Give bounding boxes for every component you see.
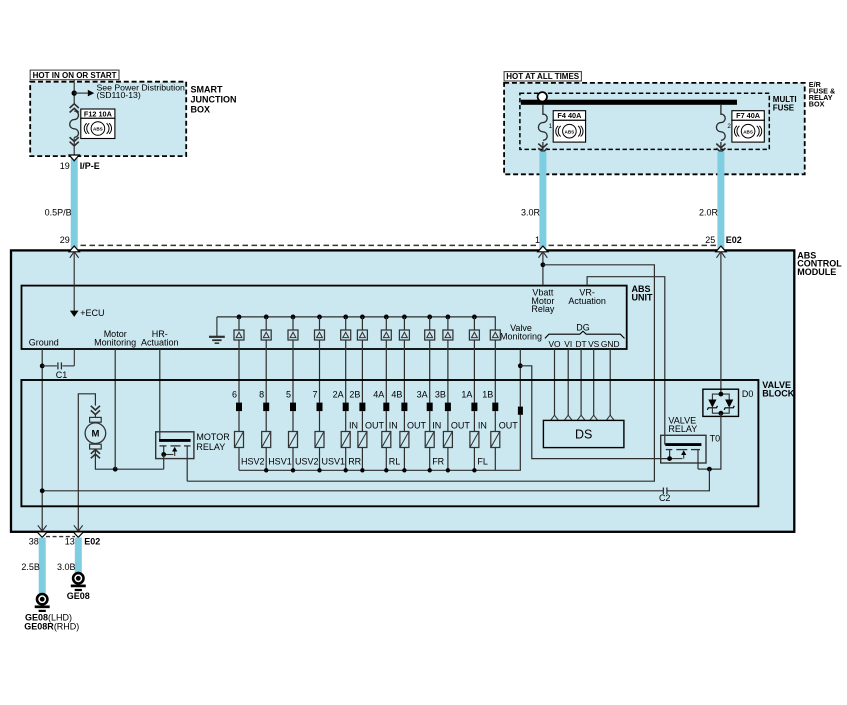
wire from hot-in-on to junction <box>73 80 75 104</box>
wire bus to driver 1 <box>238 317 240 330</box>
svg-text:4A: 4A <box>373 389 384 399</box>
svg-text:USV1: USV1 <box>322 456 346 466</box>
valve driver 3B <box>443 330 453 340</box>
wire solenoid 6 to return bus <box>361 448 363 471</box>
valve driver 7 <box>315 330 325 340</box>
svg-text:E02: E02 <box>726 235 742 245</box>
solenoid coil 1 <box>235 432 244 448</box>
svg-text:USV2: USV2 <box>295 456 319 466</box>
svg-text:F12 10A: F12 10A <box>84 109 113 118</box>
wire pin to solenoid coil 1 <box>238 411 240 431</box>
svg-text:8: 8 <box>259 389 264 399</box>
wire solenoid 12 to return bus <box>494 448 496 471</box>
connector E02 dashed line at module top <box>81 244 717 246</box>
solenoid coil 5 <box>341 432 350 448</box>
svg-text:OUT: OUT <box>407 421 427 431</box>
svg-text:Monitoring: Monitoring <box>500 331 542 341</box>
junction on solenoid return bus <box>264 468 268 472</box>
svg-text:IN: IN <box>432 421 441 431</box>
junction valve relay output <box>707 467 712 472</box>
fuse F7 40A label box <box>732 111 764 121</box>
svg-text:2: 2 <box>727 123 731 130</box>
wire below fuse F12 <box>73 138 75 156</box>
svg-text:JUNCTION: JUNCTION <box>191 95 237 105</box>
motor M1 <box>85 417 106 449</box>
svg-text:FR: FR <box>432 456 444 466</box>
ABS control module box <box>11 250 794 531</box>
svg-text:Monitoring: Monitoring <box>94 338 136 348</box>
junction on driver bus 4 <box>317 315 322 320</box>
svg-text:Ground: Ground <box>29 338 59 348</box>
junction on solenoid return bus <box>446 468 450 472</box>
wire driver 7 to solenoid <box>319 340 321 403</box>
svg-text:T0: T0 <box>710 433 721 443</box>
svg-text:VO: VO <box>548 339 561 349</box>
E/R fuse and relay box <box>504 83 805 174</box>
wire D0 to valve relay junction <box>709 413 721 469</box>
DS input triangle VI <box>564 415 572 420</box>
junction on driver bus 5 <box>343 315 348 320</box>
wire solenoid 10 to return bus <box>447 448 449 471</box>
wire valve relay to C2 <box>667 469 710 491</box>
wire pin to solenoid coil 12 <box>494 411 496 431</box>
wire Vbatt to motor relay contact <box>187 265 654 481</box>
svg-text:BOX: BOX <box>191 105 211 115</box>
label ABS CONTROL MODULE <box>797 250 842 277</box>
svg-text:Relay: Relay <box>531 304 555 314</box>
svg-text:(SD110-13): (SD110-13) <box>97 90 141 100</box>
wire bar to fuse F7 <box>720 105 722 115</box>
svg-text:HOT AT ALL TIMES: HOT AT ALL TIMES <box>506 72 580 81</box>
driver supply bus wire <box>217 317 495 330</box>
wire solenoid 11 to return bus <box>473 448 475 471</box>
svg-text:RL: RL <box>389 456 401 466</box>
svg-text:13: 13 <box>65 537 75 547</box>
connector chevrons below fuse F4 <box>538 144 547 153</box>
svg-text:ABS: ABS <box>743 129 753 134</box>
valve driver 2B <box>357 330 367 340</box>
ground GE08 right <box>71 573 86 590</box>
wire solenoid 5 to return bus <box>345 448 347 471</box>
solenoid coil 3 <box>289 432 298 448</box>
ABS unit internal ground <box>209 317 225 343</box>
connector pin 2A <box>343 403 349 412</box>
connector pin 1A <box>471 403 477 412</box>
label HOT AT ALL TIMES <box>504 72 581 82</box>
svg-text:IN: IN <box>349 421 358 431</box>
valve driver 2A <box>341 330 351 340</box>
solenoid coil 7 <box>382 432 391 448</box>
wire driver 8 to solenoid <box>265 340 267 403</box>
svg-text:7: 7 <box>312 389 317 399</box>
DS block <box>543 420 624 447</box>
wire 3.0R cyan <box>539 152 546 251</box>
svg-text:6: 6 <box>232 389 237 399</box>
wire bus to driver 6 <box>361 317 363 330</box>
wire solenoid 4 to return bus <box>319 448 321 471</box>
wire VS to DS <box>593 349 595 416</box>
see power distribution arrow <box>74 90 94 97</box>
svg-text:RR: RR <box>348 456 361 466</box>
svg-text:2A: 2A <box>333 389 344 399</box>
wire bus to driver 3 <box>292 317 294 330</box>
svg-text:BOX: BOX <box>809 100 825 109</box>
junction on solenoid return bus <box>428 468 432 472</box>
junction motor monitoring <box>113 467 118 472</box>
svg-text:OUT: OUT <box>499 421 519 431</box>
wire solenoid 2 to return bus <box>265 448 267 471</box>
wire driver 3B to solenoid <box>447 340 449 403</box>
svg-text:29: 29 <box>60 235 70 245</box>
junction motor relay contact <box>161 452 166 457</box>
multifuse bus bar <box>521 100 737 105</box>
valve driver 8 <box>261 330 271 340</box>
connector pin 3A <box>427 403 433 412</box>
svg-text:D0: D0 <box>742 389 754 399</box>
wire pin to solenoid coil 6 <box>361 411 363 431</box>
wire pin to solenoid coil 4 <box>319 411 321 431</box>
svg-text:4B: 4B <box>391 389 402 399</box>
solenoid coil 4 <box>315 432 324 448</box>
svg-text:2.5B: 2.5B <box>21 562 40 572</box>
valve driver 4A <box>381 330 391 340</box>
wire driver 4B to solenoid <box>403 340 405 403</box>
solenoid coil 11 <box>470 432 479 448</box>
wire VI to DS <box>567 349 569 416</box>
label See Power Distribution (SD110-13) <box>97 82 186 100</box>
wire 3.0B cyan <box>75 538 82 574</box>
fuse F12 element <box>70 111 79 137</box>
svg-text:DT: DT <box>576 339 587 349</box>
fuse F7 element <box>716 114 725 140</box>
junction on driver bus 1 <box>237 315 242 320</box>
svg-text:IN: IN <box>478 421 487 431</box>
wire motor monitoring <box>114 349 116 469</box>
wire bus to driver 9 <box>429 317 431 330</box>
wire DT to DS <box>580 349 582 416</box>
wire valve monitoring to return bus <box>519 415 522 471</box>
connector chevrons below fuse F12 <box>70 137 79 146</box>
svg-text:HOT IN ON OR START: HOT IN ON OR START <box>33 71 117 80</box>
module entry connector at x=542.9 <box>538 246 548 258</box>
wire HR-actuation to motor relay <box>159 349 161 440</box>
solenoid coil 9 <box>425 432 434 448</box>
wire driver 2A to solenoid <box>345 340 347 403</box>
label MULTI FUSE <box>773 95 797 112</box>
svg-text:5: 5 <box>286 389 291 399</box>
solenoid return bus wire <box>239 469 520 471</box>
wire 2.5B cyan <box>39 538 46 595</box>
svg-text:VS: VS <box>588 339 600 349</box>
svg-text:UNIT: UNIT <box>632 292 653 302</box>
motor relay <box>156 432 194 481</box>
label ABS UNIT <box>632 284 653 302</box>
svg-text:F4 40A: F4 40A <box>557 111 582 120</box>
DS input triangle GND <box>606 415 614 420</box>
wire bus to driver 8 <box>403 317 405 330</box>
wire driver 3A to solenoid <box>429 340 431 403</box>
DS input triangle DT <box>577 415 585 420</box>
svg-text:OUT: OUT <box>365 421 385 431</box>
junction on driver bus 9 <box>427 315 432 320</box>
wire pin to solenoid coil 9 <box>429 411 431 431</box>
connector chevron I/P-E exit <box>69 155 79 161</box>
solenoid coil 10 <box>443 432 452 448</box>
wire GND to DS <box>609 349 611 416</box>
svg-text:Actuation: Actuation <box>568 296 606 306</box>
module entry connector at x=74.2 <box>69 246 79 258</box>
svg-text:C2: C2 <box>659 493 671 503</box>
wire VO to DS <box>554 349 556 416</box>
svg-text:3.0B: 3.0B <box>57 562 76 572</box>
svg-text:F7 40A: F7 40A <box>736 111 761 120</box>
junction on solenoid return bus <box>360 468 364 472</box>
svg-text:BLOCK: BLOCK <box>762 388 794 398</box>
wire bar to fuse F4 <box>542 105 544 115</box>
module exit connector at x=42.2 <box>37 525 47 537</box>
connector pin valve monitoring <box>518 407 523 415</box>
module exit connector at x=78.3 <box>73 525 83 537</box>
wire VR-actuation to valve relay coil <box>587 277 665 445</box>
junction on solenoid return bus <box>402 468 406 472</box>
svg-text:2.0R: 2.0R <box>699 207 719 217</box>
wire valve monitoring to valve relay contact <box>520 366 668 459</box>
label HOT IN ON OR START <box>30 70 119 80</box>
DS input triangle VS <box>590 415 598 420</box>
svg-text:3.0R: 3.0R <box>521 207 541 217</box>
connector pin 8 <box>263 403 269 412</box>
label Vbatt Motor Relay pin <box>531 288 555 315</box>
svg-text:1A: 1A <box>461 389 472 399</box>
connector pin 1B <box>492 403 498 412</box>
wire pin to solenoid coil 7 <box>385 411 387 431</box>
fuse F4 40A label box <box>553 111 585 121</box>
svg-text:GE08: GE08 <box>67 591 90 601</box>
wire pin to solenoid coil 5 <box>345 411 347 431</box>
fuse F7 ABS symbol box <box>732 120 764 142</box>
wire ground pin38 <box>41 349 43 531</box>
svg-text:VI: VI <box>564 339 572 349</box>
valve driver 1B <box>490 330 500 340</box>
connector pin 6 <box>236 403 242 412</box>
wire pin to solenoid coil 10 <box>447 411 449 431</box>
wire valve monitoring <box>519 349 521 407</box>
wire bus to driver 10 <box>447 317 449 330</box>
junction D0 bottom <box>719 411 724 416</box>
svg-text:M: M <box>91 429 99 440</box>
junction on solenoid return bus <box>384 468 388 472</box>
connector E02 dashed line at module bottom <box>46 536 75 538</box>
svg-text:ABS: ABS <box>93 127 103 132</box>
svg-text:MODULE: MODULE <box>797 267 836 277</box>
svg-text:38: 38 <box>29 537 39 547</box>
wire pin to solenoid coil 3 <box>292 411 294 431</box>
svg-text:3A: 3A <box>417 389 428 399</box>
solenoid coil 2 <box>262 432 271 448</box>
wire pin to solenoid coil 11 <box>473 411 475 431</box>
valve driver 6 <box>234 330 244 340</box>
junction on driver bus 10 <box>446 315 451 320</box>
svg-text:I/P-E: I/P-E <box>80 161 100 171</box>
+ECU supply triangle <box>70 311 79 317</box>
junction on driver bus 7 <box>384 315 389 320</box>
junction valve relay contact <box>667 456 672 461</box>
wire solenoid 8 to return bus <box>403 448 405 471</box>
junction on driver bus 2 <box>264 315 269 320</box>
wire driver 2B to solenoid <box>361 340 363 403</box>
wire solenoid 7 to return bus <box>385 448 387 471</box>
capacitor C2 <box>663 488 667 495</box>
wire C2 to ground wire <box>42 490 663 492</box>
svg-text:E02: E02 <box>84 537 100 547</box>
valve block box <box>21 380 758 506</box>
module entry connector at x=720.9 <box>716 246 726 258</box>
connector chevrons below fuse F7 <box>716 144 725 153</box>
svg-text:SMART: SMART <box>191 85 223 95</box>
junction dot <box>72 90 77 95</box>
wire solenoid 9 to return bus <box>429 448 431 471</box>
wire below fuse F4 <box>542 142 544 152</box>
wire pin13 motor return <box>41 530 43 532</box>
connector pin 7 <box>317 403 323 412</box>
junction C2 at ground wire <box>40 488 45 493</box>
connector pin 2B <box>359 403 365 412</box>
svg-text:19: 19 <box>60 161 70 171</box>
svg-text:+ECU: +ECU <box>80 308 104 318</box>
wire pin25 to D0 <box>720 252 722 395</box>
svg-text:GE08R(RHD): GE08R(RHD) <box>24 621 79 631</box>
connector pin 5 <box>290 403 296 412</box>
label Motor Monitoring pin <box>94 329 136 347</box>
wire below fuse F7 <box>720 142 722 152</box>
fuse F12 10A label box <box>81 109 115 118</box>
wire bus to driver 5 <box>345 317 347 330</box>
wire driver 1A to solenoid <box>473 340 475 403</box>
junction on solenoid return bus <box>291 468 295 472</box>
connector chevrons above fuse F12 <box>70 104 79 113</box>
capacitor C1 <box>42 349 74 369</box>
svg-text:0.5P/B: 0.5P/B <box>45 207 72 217</box>
wire bus to driver 11 <box>473 317 475 330</box>
solenoid coil 6 <box>358 432 367 448</box>
wire pin1 Vbatt <box>542 252 544 286</box>
wire 0.5P/B cyan <box>71 157 78 251</box>
wire motor to pin 13 <box>78 394 95 531</box>
svg-text:OUT: OUT <box>451 421 471 431</box>
valve driver 1A <box>469 330 479 340</box>
valve driver 5 <box>288 330 298 340</box>
connector pin 4A <box>383 403 389 412</box>
svg-text:Actuation: Actuation <box>141 338 179 348</box>
wire pin to solenoid coil 8 <box>403 411 405 431</box>
label E/R FUSE & RELAY BOX <box>809 80 835 109</box>
wire bus to driver 4 <box>319 317 321 330</box>
solenoid coil 8 <box>400 432 409 448</box>
DS input triangle VO <box>551 415 559 420</box>
fuse F4 ABS symbol box <box>553 120 585 142</box>
junction on driver bus 6 <box>360 315 365 320</box>
svg-text:3B: 3B <box>435 389 446 399</box>
valve driver 3A <box>425 330 435 340</box>
label MOTOR RELAY <box>196 432 230 452</box>
wire motor relay contact down <box>163 455 165 470</box>
junction on solenoid return bus <box>344 468 348 472</box>
wire driver 1B to solenoid <box>494 340 496 403</box>
multi fuse box <box>520 93 769 149</box>
diode block D0 <box>703 389 739 416</box>
wire pin to solenoid coil 2 <box>265 411 267 431</box>
svg-text:DS: DS <box>575 427 592 441</box>
label SMART JUNCTION BOX <box>191 85 237 115</box>
svg-text:1B: 1B <box>482 389 493 399</box>
svg-text:1: 1 <box>549 123 553 130</box>
valve relay <box>661 435 710 469</box>
bus bar terminal circle <box>538 92 547 101</box>
label VALVE BLOCK <box>762 380 794 398</box>
svg-text:RELAY: RELAY <box>196 442 225 452</box>
wire 2.0R cyan <box>717 152 724 251</box>
svg-text:RELAY: RELAY <box>668 424 697 434</box>
junction on solenoid return bus <box>317 468 321 472</box>
svg-text:25: 25 <box>705 235 715 245</box>
smart junction box <box>30 82 186 156</box>
fuse F12 ABS symbol box <box>81 118 115 138</box>
wire solenoid 1 to return bus <box>238 448 240 471</box>
valve driver 4B <box>399 330 409 340</box>
connector chevrons below motor <box>91 450 100 459</box>
fuse F4 element <box>538 114 547 140</box>
label Valve Monitoring pin <box>500 323 542 341</box>
connector pin 4B <box>401 403 407 412</box>
wire motor to bottom bend <box>95 449 163 469</box>
ground GE08 left <box>35 594 50 611</box>
wire driver 4A to solenoid <box>385 340 387 403</box>
junction D0 top <box>719 392 724 397</box>
label VR-Actuation pin <box>568 288 606 306</box>
svg-text:GND: GND <box>601 339 620 349</box>
junction on driver bus 11 <box>472 315 477 320</box>
svg-text:HSV1: HSV1 <box>268 456 292 466</box>
connector pin 3B <box>445 403 451 412</box>
svg-text:HSV2: HSV2 <box>241 456 265 466</box>
connector chevrons above motor <box>91 406 100 415</box>
svg-text:FL: FL <box>477 456 488 466</box>
label VALVE RELAY <box>668 416 697 434</box>
junction on driver bus 3 <box>291 315 296 320</box>
wire driver 5 to solenoid <box>292 340 294 403</box>
svg-text:MOTOR: MOTOR <box>196 432 230 442</box>
label GE08(LHD) GE08R(RHD) <box>24 613 79 632</box>
wire chevron to motor <box>94 415 96 419</box>
junction Vbatt branch <box>541 262 546 267</box>
junction on solenoid return bus <box>472 468 476 472</box>
DG brace <box>545 331 625 338</box>
wire bus to driver 7 <box>385 317 387 330</box>
svg-text:1: 1 <box>535 235 540 245</box>
junction on driver bus 8 <box>402 315 407 320</box>
junction C1 tap <box>40 364 45 369</box>
wire solenoid 3 to return bus <box>292 448 294 471</box>
svg-text:IN: IN <box>389 421 398 431</box>
wire pin29 to +ECU <box>73 252 75 311</box>
ABS unit box <box>22 286 627 349</box>
junction valve monitoring branch <box>518 363 523 368</box>
label HR-Actuation pin <box>141 329 179 347</box>
svg-text:FUSE: FUSE <box>773 103 795 112</box>
svg-text:2B: 2B <box>349 389 360 399</box>
wire bus to driver 2 <box>265 317 267 330</box>
wire driver 6 to solenoid <box>238 340 240 403</box>
